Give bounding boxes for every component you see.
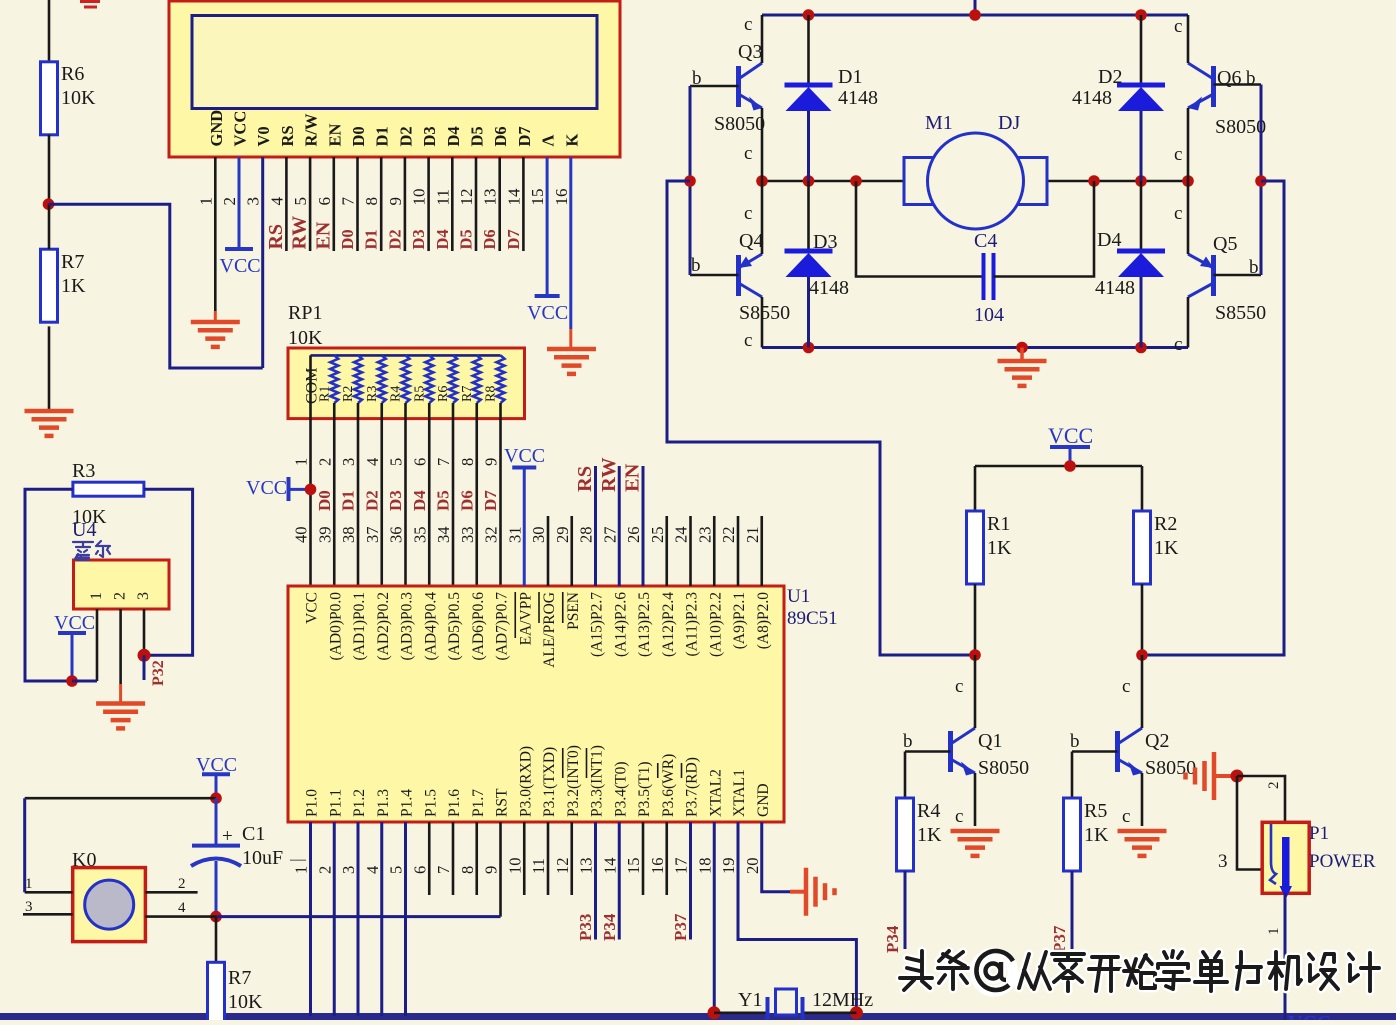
svg-text:(AD3)P0.3: (AD3)P0.3 — [399, 592, 416, 661]
svg-text:P34: P34 — [600, 913, 619, 941]
wire LCD pin8 lead — [380, 157, 383, 251]
resistor R7 divider — [41, 249, 58, 322]
node U4 VCC junction — [66, 675, 78, 687]
svg-text:1: 1 — [196, 197, 215, 206]
svg-text:1K: 1K — [61, 275, 86, 297]
wire left drop to K0 pin1 — [23, 798, 26, 892]
resistor R6 — [41, 62, 58, 135]
wire R4 bottom P34 — [904, 871, 907, 949]
svg-text:c: c — [1174, 203, 1182, 224]
svg-text:P1.7: P1.7 — [470, 789, 487, 817]
node top rail D2 — [1135, 9, 1147, 21]
svg-text:D2: D2 — [362, 490, 381, 511]
svg-text:c: c — [744, 330, 752, 351]
wire Q3 base — [690, 85, 739, 88]
wire LCD pin13 lead — [498, 157, 501, 251]
svg-text:R8: R8 — [484, 386, 499, 402]
wire reset top rail — [25, 797, 216, 800]
svg-text:D5: D5 — [457, 229, 476, 249]
svg-text:Q3: Q3 — [738, 41, 762, 63]
wire U1 pin10 stub — [523, 822, 526, 895]
svg-text:D3: D3 — [386, 490, 405, 511]
transistor Q6 — [1211, 66, 1216, 107]
svg-text:DJ: DJ — [998, 112, 1020, 134]
wire D4 bottom lead — [1140, 277, 1143, 348]
svg-text:(AD7)P0.7: (AD7)P0.7 — [494, 592, 511, 661]
svg-text:C1: C1 — [242, 823, 265, 845]
wire LCD pin16 lead — [569, 157, 572, 329]
crystal Y1 plates — [766, 997, 770, 1020]
ground H-bridge — [1020, 348, 1024, 362]
svg-text:D3: D3 — [813, 231, 837, 253]
wire U1 pin23 stub — [713, 516, 716, 586]
wire junction to pin1 — [72, 680, 97, 683]
svg-text:10K: 10K — [288, 327, 323, 349]
svg-text:12: 12 — [457, 189, 476, 206]
svg-text:D2: D2 — [1098, 66, 1122, 88]
cut-off red mark top-left — [80, 0, 100, 3]
svg-text:(AD2)P0.2: (AD2)P0.2 — [375, 592, 392, 660]
svg-text:S8050: S8050 — [978, 757, 1029, 779]
wire left base to Q1 collector — [667, 181, 975, 655]
svg-text:(AD5)P0.5: (AD5)P0.5 — [446, 592, 463, 661]
svg-text:16: 16 — [648, 858, 667, 875]
wire LCD pin3 V0 lead — [261, 157, 264, 368]
svg-text:3: 3 — [244, 197, 263, 206]
svg-text:12MHz: 12MHz — [812, 989, 873, 1011]
wire U1 pin25 stub — [665, 516, 668, 586]
svg-text:D7: D7 — [481, 490, 500, 511]
wire LCD pin1 GND lead — [214, 157, 217, 311]
svg-text:38: 38 — [339, 527, 358, 544]
wire RST rail to U1 pin9 — [216, 915, 501, 918]
power VCC LCD pin15 — [535, 294, 560, 298]
svg-text:D0: D0 — [315, 490, 334, 511]
svg-text:Q5: Q5 — [1213, 233, 1237, 255]
svg-text:ALE/PROG: ALE/PROG — [541, 592, 558, 668]
svg-text:D1: D1 — [362, 229, 381, 249]
wire Q4 base — [690, 274, 739, 277]
wire crystal left — [714, 1011, 766, 1014]
svg-text:21: 21 — [743, 527, 762, 544]
resistor RP1 R8 — [497, 355, 505, 403]
svg-text:14: 14 — [504, 188, 523, 206]
svg-text:P3.2(INT0): P3.2(INT0) — [565, 745, 582, 817]
svg-text:V0: V0 — [254, 126, 273, 146]
svg-text:9: 9 — [482, 866, 501, 874]
node Q1 collector junction — [969, 649, 981, 661]
wire LCD pin7 lead — [356, 157, 359, 251]
svg-text:17: 17 — [672, 858, 691, 875]
svg-text:C4: C4 — [974, 230, 997, 252]
svg-text:K: K — [562, 134, 581, 147]
svg-text:(AD6)P0.6: (AD6)P0.6 — [470, 592, 487, 661]
LCD screen inner rect — [192, 16, 597, 109]
svg-text:b: b — [692, 68, 702, 89]
svg-text:13: 13 — [577, 858, 596, 875]
svg-text:4148: 4148 — [838, 87, 878, 109]
svg-text:33: 33 — [458, 527, 477, 544]
svg-text:11: 11 — [529, 858, 548, 874]
wire bottom bus band — [0, 1013, 1396, 1020]
svg-text:c: c — [744, 14, 752, 35]
wire VCC to reset junction — [215, 774, 218, 798]
svg-text:D4: D4 — [433, 229, 452, 249]
resistor RP1 R4 — [402, 355, 410, 403]
node top rail VCC — [969, 9, 981, 21]
wire LCD pin5 lead — [309, 157, 312, 251]
svg-text:10: 10 — [505, 858, 524, 875]
svg-text:Q6: Q6 — [1217, 67, 1241, 89]
svg-text:35: 35 — [410, 527, 429, 544]
svg-text:2: 2 — [178, 876, 186, 892]
transistor Q1 — [948, 731, 953, 772]
svg-text:R4: R4 — [389, 386, 404, 402]
svg-text:1K: 1K — [1154, 537, 1179, 559]
svg-text:D2: D2 — [385, 229, 404, 249]
wire C4 loop right — [994, 181, 1095, 277]
svg-text:4: 4 — [363, 866, 382, 874]
svg-text:R6: R6 — [436, 386, 451, 402]
wire LCD pin14 lead — [522, 157, 525, 251]
wire U1 pin15 stub — [642, 822, 645, 895]
svg-text:S8050: S8050 — [1145, 757, 1196, 779]
svg-text:R6: R6 — [61, 63, 84, 85]
svg-text:3: 3 — [339, 866, 358, 874]
wire R1 top lead — [974, 466, 977, 511]
watermark text — [900, 951, 932, 990]
capacitor C4 — [982, 253, 986, 300]
wire C4 loop left — [856, 181, 983, 277]
ground U1 pin20 — [790, 890, 806, 894]
wire left base rail — [689, 86, 692, 275]
node reset top junction — [210, 792, 222, 804]
wire VCC stub top — [974, 0, 977, 15]
node right base junction — [1255, 175, 1267, 187]
svg-text:22: 22 — [719, 527, 738, 544]
svg-text:U4: U4 — [72, 519, 96, 541]
svg-text:R2: R2 — [341, 386, 356, 402]
svg-text:D3: D3 — [420, 126, 439, 146]
svg-text:R7: R7 — [228, 967, 251, 989]
resistor RP1 R3 — [378, 355, 386, 403]
node driver VCC junction — [1064, 460, 1076, 472]
svg-text:R3: R3 — [72, 460, 95, 482]
wire P32 stub — [143, 655, 146, 680]
svg-text:D3: D3 — [409, 229, 428, 249]
node divider junction — [43, 198, 55, 210]
svg-text:30: 30 — [529, 527, 548, 544]
svg-text:c: c — [1174, 16, 1182, 37]
switch K0 button — [85, 880, 134, 929]
wire D3 bottom lead — [807, 277, 810, 348]
svg-text:GND: GND — [207, 110, 226, 147]
wire U1 pin20 GND lead — [762, 822, 790, 892]
svg-text:S8550: S8550 — [1215, 302, 1266, 324]
svg-text:20: 20 — [743, 858, 762, 875]
svg-text:U1: U1 — [787, 586, 810, 607]
wire LCD pin2 VCC lead — [238, 157, 241, 249]
svg-text:2: 2 — [112, 592, 129, 600]
svg-text:—: — — [289, 851, 307, 868]
svg-text:b: b — [1070, 731, 1080, 752]
node bottom rail gnd — [1016, 342, 1028, 354]
svg-text:P3.3(INT1): P3.3(INT1) — [589, 745, 606, 817]
resistor R5 — [1064, 798, 1081, 871]
wire U1 pin29 stub — [570, 516, 573, 586]
wire P1 pin2 — [1237, 776, 1285, 821]
svg-text:P1.0: P1.0 — [304, 789, 321, 817]
wire RP1 pin3 lead — [357, 403, 360, 586]
svg-text:14: 14 — [600, 858, 619, 875]
wire RP1 pin9 lead — [499, 403, 502, 586]
wire R6 to junction — [48, 135, 51, 205]
svg-text:27: 27 — [600, 527, 619, 544]
svg-text:10K: 10K — [61, 87, 96, 109]
wire D2 top lead — [1140, 15, 1143, 84]
resistor RP1 R6 — [449, 355, 457, 403]
wire U1 pin13 P33 lead — [594, 822, 597, 940]
switch K0 box — [73, 868, 146, 942]
svg-text:RP1: RP1 — [288, 302, 322, 324]
svg-text:10K: 10K — [228, 991, 263, 1013]
node XTAL2 junction — [708, 1006, 721, 1019]
svg-text:VCC: VCC — [231, 111, 250, 147]
resistor R4 — [897, 798, 914, 871]
svg-text:6: 6 — [410, 866, 429, 874]
connector P1 box — [1262, 822, 1309, 893]
svg-text:(AD0)P0.0: (AD0)P0.0 — [327, 592, 344, 661]
wire RP1 pin8 lead — [475, 403, 478, 586]
ground Q1 — [951, 829, 1000, 834]
svg-text:(A11)P2.3: (A11)P2.3 — [684, 592, 701, 657]
svg-text:P3.0(RXD): P3.0(RXD) — [517, 746, 534, 817]
wire U4 pin1 — [96, 609, 99, 681]
svg-text:2: 2 — [1266, 782, 1282, 790]
wire RP1 pin6 lead — [428, 403, 431, 586]
svg-text:15: 15 — [624, 858, 643, 875]
node P1 junction — [1231, 770, 1244, 783]
ground Q2 — [1118, 829, 1167, 834]
svg-text:b: b — [1249, 257, 1259, 278]
node left base junction — [684, 175, 696, 187]
svg-text:c: c — [1122, 806, 1130, 827]
svg-text:P1.1: P1.1 — [327, 789, 344, 817]
svg-text:(A14)P2.6: (A14)P2.6 — [612, 592, 629, 657]
svg-text:b: b — [691, 255, 701, 276]
svg-text:c: c — [1174, 334, 1182, 355]
svg-text:XTAL1: XTAL1 — [731, 769, 748, 817]
wire U1 pin1 P1.0 to bus — [309, 822, 312, 1016]
wire Q5 emitter — [1187, 181, 1190, 254]
svg-text:R1: R1 — [317, 386, 332, 402]
svg-text:15: 15 — [528, 189, 547, 206]
wire R3 left loop — [25, 489, 73, 681]
wire D4 top lead — [1140, 181, 1143, 250]
transistor Q3 — [736, 66, 741, 107]
node U4 pin3 junction — [138, 649, 151, 662]
svg-text:D1: D1 — [339, 490, 358, 511]
wire U1 pin24 stub — [689, 516, 692, 586]
wire RP1 pin2 lead — [333, 403, 336, 586]
wire D3 top lead — [807, 181, 810, 250]
wire Q1 emitter — [974, 773, 977, 826]
svg-text:4148: 4148 — [809, 277, 849, 299]
wire R3 right loop — [144, 489, 193, 655]
wire K0 pin3 — [23, 913, 73, 916]
svg-text:R4: R4 — [917, 800, 940, 822]
svg-text:POWER: POWER — [1309, 851, 1376, 872]
svg-text:36: 36 — [387, 527, 406, 544]
svg-text:XTAL2: XTAL2 — [707, 769, 724, 817]
svg-text:VCC: VCC — [1048, 423, 1093, 448]
svg-text:3: 3 — [135, 592, 152, 600]
svg-text:8: 8 — [458, 458, 477, 466]
svg-text:13: 13 — [481, 189, 500, 206]
svg-text:VCC: VCC — [527, 302, 568, 324]
svg-text:R5: R5 — [1084, 800, 1107, 822]
wire VCC to junction — [71, 633, 74, 681]
wire D1 bottom lead — [807, 111, 810, 181]
wire C1 to RST rail — [215, 861, 218, 917]
wire U1 pin9 RST lead — [499, 822, 502, 917]
svg-text:11: 11 — [433, 189, 452, 205]
wire P1 pin1 — [1284, 893, 1287, 1020]
svg-text:D4: D4 — [1097, 229, 1121, 251]
ground LCD pin1 — [214, 311, 217, 322]
svg-text:1: 1 — [88, 592, 105, 600]
svg-text:6: 6 — [410, 458, 429, 466]
svg-text:8: 8 — [458, 866, 477, 874]
svg-text:P3.5(T1): P3.5(T1) — [636, 761, 653, 817]
svg-text:2: 2 — [315, 458, 334, 466]
svg-text:25: 25 — [648, 527, 667, 544]
node bottom rail D4 — [1135, 342, 1147, 354]
wire VCC to rail — [1069, 447, 1072, 466]
wire Q1 collector — [974, 655, 977, 728]
svg-text:+: + — [222, 826, 233, 847]
svg-text:4148: 4148 — [1095, 277, 1135, 299]
wire K0 pin1 — [25, 891, 73, 894]
diode D4 — [1117, 249, 1165, 254]
resistor R1 — [967, 511, 984, 584]
transistor Q4 — [736, 255, 741, 296]
svg-text:P1.6: P1.6 — [446, 789, 463, 817]
svg-text:23: 23 — [695, 527, 714, 544]
svg-text:10uF: 10uF — [242, 847, 283, 869]
svg-text:D5: D5 — [468, 126, 487, 146]
svg-text:3: 3 — [1218, 851, 1228, 872]
svg-text:R3: R3 — [365, 386, 380, 402]
svg-text:D0: D0 — [338, 229, 357, 249]
resistor RP1 R5 — [425, 355, 433, 403]
svg-text:VCC: VCC — [246, 477, 287, 499]
wire R2 top lead — [1141, 466, 1144, 511]
wire Q4 collector — [761, 297, 764, 348]
resistor pack RP1 box — [288, 348, 525, 419]
svg-text:R1: R1 — [987, 513, 1010, 535]
svg-text:5: 5 — [387, 866, 406, 874]
capacitor C1 — [215, 798, 218, 845]
wire U4 pin3 — [143, 609, 146, 655]
wire right base rail — [1260, 85, 1263, 276]
diode D2 — [1117, 83, 1165, 88]
wire U1 pin5 P1.4 to bus — [404, 822, 407, 1016]
svg-text:P37: P37 — [671, 913, 690, 941]
svg-text:104: 104 — [974, 304, 1004, 326]
svg-text:9: 9 — [386, 197, 405, 206]
svg-text:3: 3 — [25, 899, 33, 915]
svg-text:P3.6(WR): P3.6(WR) — [660, 754, 677, 817]
node VCC junction pin40 — [305, 484, 317, 496]
svg-text:R7: R7 — [61, 251, 84, 273]
wire Q6 emitter — [1187, 108, 1190, 181]
svg-text:26: 26 — [624, 527, 643, 544]
svg-text:24: 24 — [672, 527, 691, 544]
node motor rail C4 left — [850, 175, 862, 187]
svg-text:D7: D7 — [504, 229, 523, 249]
svg-text:c: c — [955, 676, 963, 697]
svg-text:5: 5 — [291, 197, 310, 206]
svg-text:R7: R7 — [460, 386, 475, 402]
resistor R2 — [1134, 511, 1151, 584]
wire U1 pin18 XTAL2 to crystal — [713, 822, 716, 1013]
connector P1 plug symbol — [1270, 824, 1276, 884]
transistor Q2 — [1115, 731, 1120, 772]
svg-text:12: 12 — [553, 858, 572, 875]
svg-text:D2: D2 — [396, 126, 415, 146]
svg-text:(A15)P2.7: (A15)P2.7 — [589, 592, 606, 657]
wire U4 pin2 — [119, 609, 122, 684]
wire R5 bottom P37 — [1071, 871, 1074, 949]
wire Q2 collector — [1141, 655, 1144, 728]
wire motor rail left — [762, 180, 904, 183]
svg-text:D4: D4 — [410, 490, 429, 511]
svg-text:37: 37 — [363, 527, 382, 544]
wire LCD pin11 lead — [451, 157, 454, 251]
svg-text:2: 2 — [220, 197, 239, 206]
svg-text:(A13)P2.5: (A13)P2.5 — [636, 592, 653, 657]
wire LCD pin4 lead — [285, 157, 288, 251]
power VCC LCD pin2 — [225, 247, 253, 251]
wire U1 pin30 stub — [547, 516, 550, 586]
svg-text:18: 18 — [695, 858, 714, 875]
svg-text:S8050: S8050 — [714, 113, 765, 135]
svg-text:Q4: Q4 — [739, 230, 763, 252]
svg-text:VCC: VCC — [54, 612, 95, 634]
svg-text:P1.4: P1.4 — [399, 789, 416, 817]
wire U1 pin16 stub — [665, 822, 668, 895]
wire U1 pin12 stub — [570, 822, 573, 895]
svg-text:RS: RS — [265, 224, 287, 250]
wire RP1 pin5 lead — [404, 403, 407, 586]
wire Q4 emitter — [761, 181, 764, 254]
svg-text:S8550: S8550 — [739, 302, 790, 324]
svg-text:4: 4 — [178, 900, 186, 916]
svg-text:7: 7 — [434, 866, 453, 874]
svg-text:8: 8 — [362, 197, 381, 206]
svg-text:(A10)P2.2: (A10)P2.2 — [707, 592, 724, 657]
ground U4 — [119, 684, 122, 703]
svg-text:6: 6 — [315, 197, 334, 206]
svg-text:40: 40 — [292, 527, 311, 544]
svg-text:VCC: VCC — [304, 592, 321, 624]
wire U1 pin17 P37 lead — [689, 822, 692, 940]
svg-text:P3.1(TXD): P3.1(TXD) — [541, 747, 558, 817]
transistor Q5 — [1211, 255, 1216, 296]
svg-text:31: 31 — [505, 527, 524, 544]
svg-text:GND: GND — [755, 783, 772, 817]
